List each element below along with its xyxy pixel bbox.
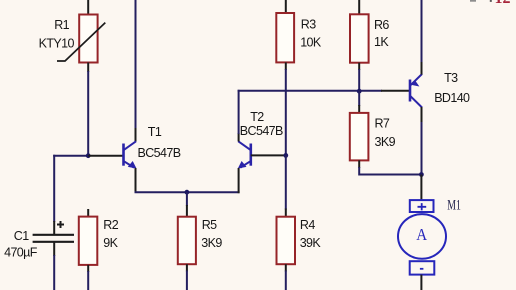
wire: C1 bottom pin xyxy=(53,242,55,256)
svg-text:BC547B: BC547B xyxy=(240,124,283,138)
wire: R6 to node C xyxy=(358,69,360,91)
wire: R6 bottom pin xyxy=(358,63,360,70)
wire: node B down to R4 xyxy=(285,155,287,209)
wire: node A to C1 branch horizontal xyxy=(53,155,88,157)
wire: T2 collector to T3 base horizontal xyxy=(238,90,382,92)
wire: node D to motor xyxy=(420,175,422,201)
wire: T2 collector up to bend xyxy=(238,90,240,134)
svg-text:R1: R1 xyxy=(54,18,69,32)
node D junction dot xyxy=(419,172,424,177)
svg-text:R6: R6 xyxy=(374,18,389,32)
wire: R5 bottom pin xyxy=(186,264,188,271)
svg-text:T1: T1 xyxy=(148,125,162,139)
resistor R5 xyxy=(178,217,196,265)
svg-text:R4: R4 xyxy=(300,218,315,232)
svg-text:3K9: 3K9 xyxy=(201,236,222,250)
wire: R7 top pin xyxy=(358,105,360,113)
wire: R5 to bottom edge xyxy=(186,271,188,290)
motor M1 minus terminal box xyxy=(410,261,435,274)
wire: R3 top pin from edge xyxy=(285,0,287,13)
svg-text:1K: 1K xyxy=(374,35,389,49)
wire: node E down to R5 xyxy=(186,192,188,206)
wire: R5 top pin xyxy=(186,205,188,217)
svg-text:R7: R7 xyxy=(375,117,390,131)
svg-text:12: 12 xyxy=(495,0,511,7)
wire: node C down to R7 xyxy=(358,91,360,106)
wire: R3 bottom pin xyxy=(285,62,287,70)
wire: T3 emitter to top edge xyxy=(421,0,423,62)
wire: C1 top pin xyxy=(53,221,55,235)
wire: node A down to R2 xyxy=(87,209,89,217)
svg-text:A: A xyxy=(416,225,428,244)
node C junction dot xyxy=(357,89,362,94)
svg-text:470µF: 470µF xyxy=(4,246,38,260)
svg-text:BC547B: BC547B xyxy=(138,146,181,160)
motor M1 plus sign xyxy=(418,203,427,210)
wire: R4 to bottom edge xyxy=(285,271,287,290)
wire: R4 bottom pin xyxy=(285,264,287,271)
svg-text:T3: T3 xyxy=(444,71,458,85)
wire: top edge down to T1 collector xyxy=(135,0,137,129)
capacitor C1 plus sign xyxy=(57,221,64,228)
svg-text:C1: C1 xyxy=(14,229,29,243)
wire: motor to bottom edge xyxy=(420,275,422,290)
wire: emitter rail xyxy=(135,191,240,193)
svg-text:3K9: 3K9 xyxy=(375,135,396,149)
wire: R7 bottom pin xyxy=(358,160,360,168)
resistor R1 xyxy=(79,15,97,63)
wire: R3 to node B xyxy=(285,69,287,155)
wire: T3 collector pin down xyxy=(421,107,423,123)
wire: T3 base pin xyxy=(381,90,410,92)
wire: T1 collector pin xyxy=(135,128,137,142)
wire: node A to T1 base xyxy=(88,155,123,157)
svg-text:M1: M1 xyxy=(447,197,461,213)
wire: T2 collector pin up xyxy=(238,133,240,142)
wire: T3 emitter pin up xyxy=(421,61,423,75)
motor M1 body circle xyxy=(398,214,446,259)
wire: down to C1 xyxy=(53,155,55,222)
svg-text:39K: 39K xyxy=(300,236,322,250)
svg-text:KTY10: KTY10 xyxy=(39,37,75,51)
motor M1 plus terminal box xyxy=(410,200,434,212)
capacitor C1 bottom plate xyxy=(33,241,74,243)
wire: +12 rail stub to R1 top xyxy=(87,0,89,15)
transistor T1 (BC547B NPN) xyxy=(124,141,137,168)
resistor R6 xyxy=(350,14,369,62)
wire: R2 to bottom edge xyxy=(87,271,89,290)
wire: R1 to node A xyxy=(87,71,89,156)
svg-text:BD140: BD140 xyxy=(434,91,470,105)
wire: R4 top pin xyxy=(285,209,287,217)
node E junction dot xyxy=(185,190,190,195)
wire: R6 top pin from edge xyxy=(358,0,360,14)
capacitor C1 top plate xyxy=(33,234,74,236)
wire: C1 to bottom edge xyxy=(53,255,55,290)
svg-text:9K: 9K xyxy=(103,236,118,250)
node B junction dot xyxy=(283,153,288,158)
svg-text:R3: R3 xyxy=(301,18,316,32)
motor M1 minus sign xyxy=(420,268,424,270)
transistor T2 (BC547B NPN, mirrored) xyxy=(238,141,251,168)
wire: T2 base to divider rail xyxy=(251,154,286,156)
thermistor diagonal of R1 (KTY10 symbol) xyxy=(57,23,105,61)
resistor R7 xyxy=(350,113,369,160)
wire: R1 bottom pin xyxy=(87,63,89,73)
transistor T3 (BD140 PNP) xyxy=(410,74,422,108)
node A junction dot xyxy=(86,153,91,158)
resistor R4 xyxy=(277,217,296,265)
svg-text:R5: R5 xyxy=(202,218,217,232)
wire: T2 emitter pin down xyxy=(238,168,240,193)
supply symbol fragment (gray) xyxy=(470,0,476,2)
resistor R3 xyxy=(276,13,294,62)
wire: R7 down and right to node D xyxy=(359,167,421,175)
svg-text:10K: 10K xyxy=(300,36,322,50)
net label +12 plus-stem fragment (gray) xyxy=(490,0,492,2)
svg-text:R2: R2 xyxy=(103,218,118,232)
resistor R2 xyxy=(79,217,98,265)
wire: T1 emitter pin down xyxy=(135,168,137,192)
wire: R2 bottom pin xyxy=(87,265,89,272)
svg-text:T2: T2 xyxy=(250,110,264,124)
wire: T3 collector to node D xyxy=(421,122,423,175)
